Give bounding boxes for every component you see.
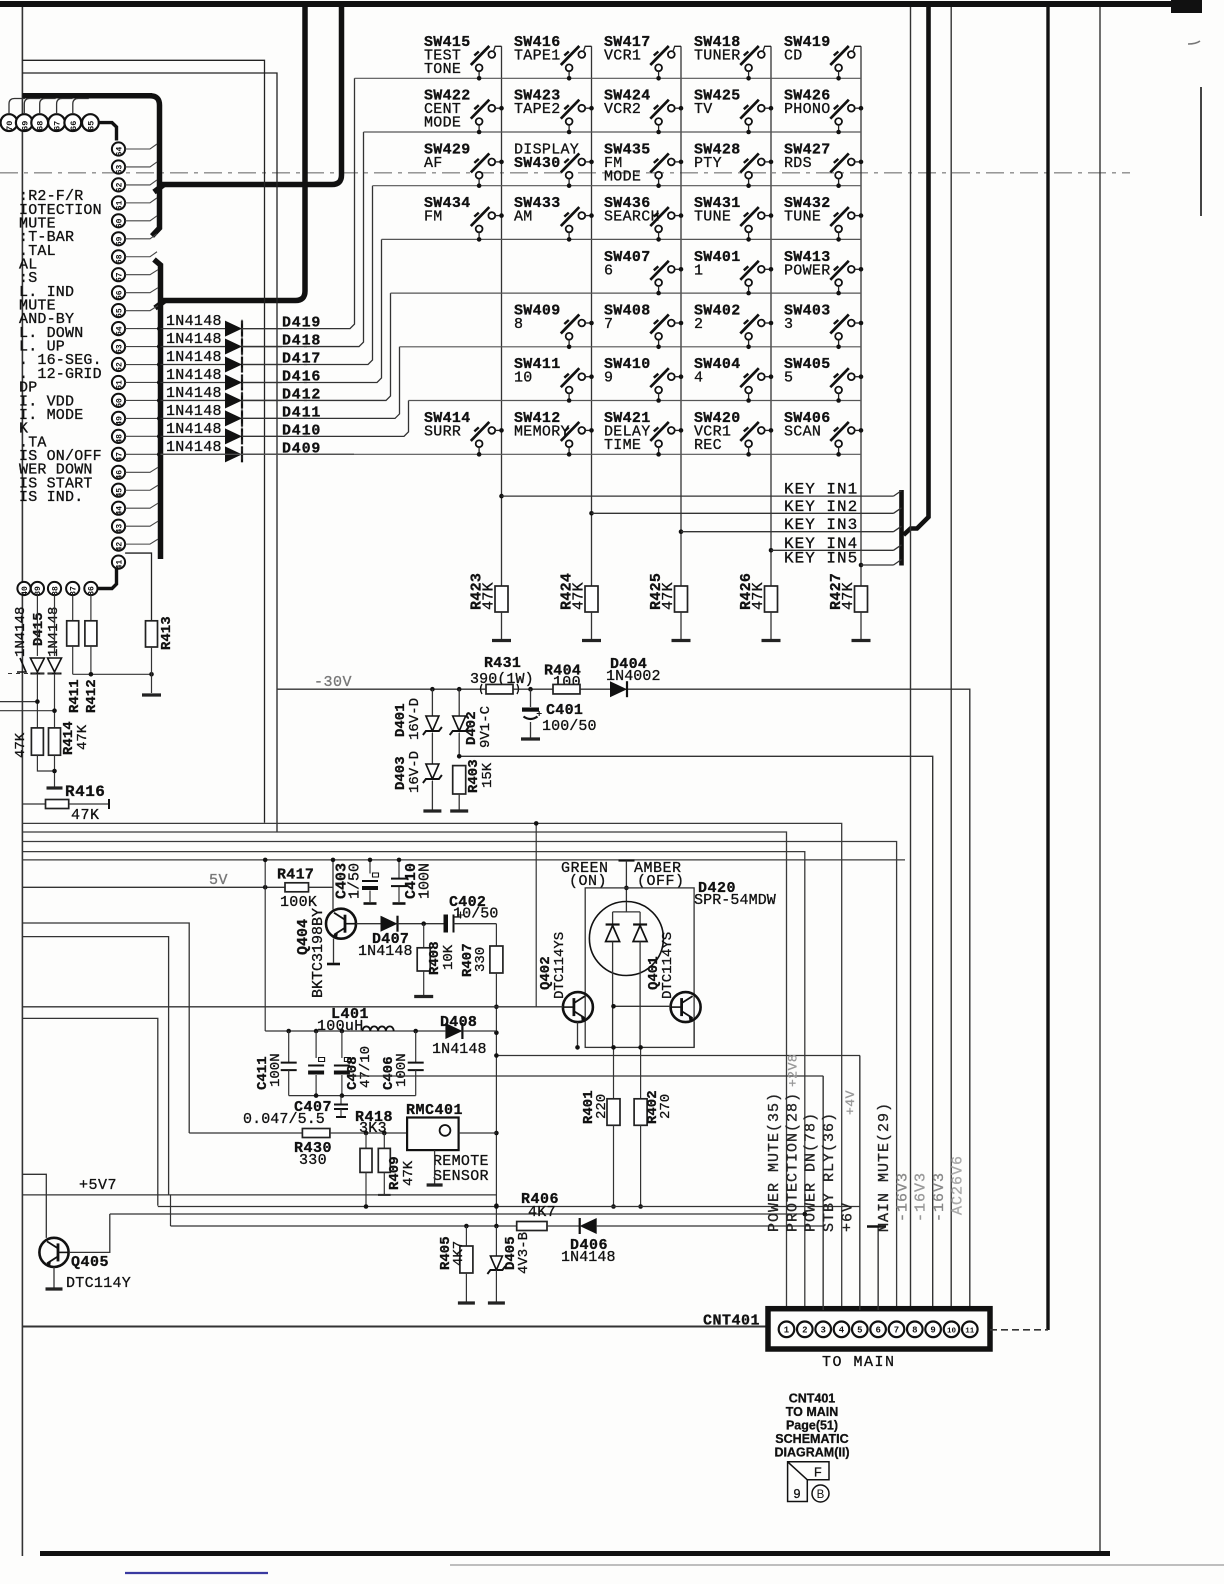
switch SW408 with label [604,303,683,350]
label connector pin 2 PROTECTION(28) [784,1092,801,1232]
resistor R424 47K with ground [559,573,602,641]
label 100N C411 [268,1053,284,1087]
switch SW429 with label [424,141,504,188]
svg-text:11: 11 [965,1328,975,1336]
wire D406 anode to pin3 line [597,1225,824,1227]
label DTC114YS Q402 [552,932,568,999]
transistor Q405 DTC114Y [39,1238,68,1267]
wire D409 row to matrix row 8 [242,453,354,455]
label KEY IN2 [784,498,858,516]
svg-text:1N4148: 1N4148 [166,349,222,366]
label R430 [294,1140,332,1157]
wire amber stem to R402 [638,1045,643,1099]
label TO MAIN [822,1354,896,1371]
wire Q404 collector to bus5 [331,858,336,910]
transistor Q401 DTC114YS [671,992,701,1022]
wire connector pin 3 vertical [822,1076,824,1310]
label D412 [282,386,321,403]
svg-text:TO MAIN: TO MAIN [786,1405,839,1419]
zener D401 16V-D [423,689,442,764]
label 100N C410 [417,863,434,899]
label C407 [294,1099,332,1116]
label D403 [393,756,409,790]
label D416 [282,368,321,385]
label CNT401 [703,1313,760,1330]
wire -30V rail crossing pin10 [0,0,1,1]
svg-text:39: 39 [34,586,43,596]
wire matrix row wire 4 [382,238,862,240]
switch SW410 with label [604,356,683,403]
label C406 [381,1056,397,1090]
label C403 [334,863,351,899]
svg-text:55: 55 [115,308,124,318]
svg-text:40: 40 [21,586,30,596]
IC bottom pin row (pins 36-40) [17,582,97,596]
wire long vertical x951 pin10 [950,7,952,1310]
svg-text:100N: 100N [268,1053,284,1087]
label R431 [484,655,521,672]
switch SW404 with label [694,356,773,403]
label SENSOR [433,1168,489,1185]
svg-text:65: 65 [86,121,96,131]
svg-text:TUNER: TUNER [694,48,741,65]
label C401 [546,702,583,719]
diode D411 1N4148 [161,410,283,426]
svg-text:SPR-54MDW: SPR-54MDW [694,892,776,909]
wire pin42 to R413 [125,553,151,620]
diode D407 1N4148 [381,916,398,932]
svg-text:9V1-C: 9V1-C [478,706,494,748]
diode D410 1N4148 [161,428,283,444]
remote sensor RMC401 [407,1118,459,1151]
svg-text:47K: 47K [750,582,767,610]
svg-text:CNT401: CNT401 [789,1392,836,1406]
wire +6V feed to pin5 [494,1053,860,1058]
svg-text:-16V3: -16V3 [931,1172,948,1222]
svg-text:VCR1: VCR1 [604,48,641,65]
svg-text:AC26V6: AC26V6 [949,1155,966,1215]
capacitor C403 1/50 [362,858,379,904]
svg-text:FM: FM [424,209,443,226]
caption Page(51) [786,1419,838,1433]
switch SW412 with label [514,410,594,457]
svg-text:CD: CD [784,48,803,65]
label Q401 [646,956,662,990]
blue margin line [125,1572,268,1574]
label SPR-54MDW [694,892,776,909]
svg-text:16V-D: 16V-D [407,751,423,793]
svg-text:47K: 47K [481,582,498,610]
label D410 [282,422,321,439]
capacitor C411 100N [281,1031,297,1096]
label 220 [594,1094,610,1119]
wire horizontal bus line 2 to connector [22,832,786,1310]
svg-text:47: 47 [115,452,124,462]
svg-text:R431: R431 [484,655,521,672]
label 100N C406 [394,1053,410,1087]
label 100 [553,674,581,691]
label D407 [372,931,409,948]
svg-text:6: 6 [875,1326,880,1336]
svg-text:TONE: TONE [424,61,461,78]
switch SW424 with label [604,88,683,135]
label 3K3 [359,1120,387,1137]
switch SW409 with label [514,303,594,350]
wire matrix column line 2 [589,46,594,585]
label 100K [280,894,317,911]
switch SW402 with label [694,303,773,350]
svg-text:9: 9 [930,1326,935,1336]
wire vertical 170.5 lower [170,1195,172,1226]
svg-text:10: 10 [947,1328,957,1336]
resistor R430 330 [302,1129,330,1138]
wire LED common anode with T end [619,861,635,902]
transistor Q402 DTC114YS [563,992,593,1022]
label D411 [282,404,321,421]
switch SW419 with label [784,34,861,81]
svg-text:CNT401: CNT401 [703,1313,760,1330]
svg-text:STBY RLY(36): STBY RLY(36) [821,1112,838,1232]
label D406 [570,1237,608,1254]
wire Q401 emitter [693,1022,695,1047]
label 10/50 [453,906,499,923]
svg-text:TAPE2: TAPE2 [514,101,561,118]
svg-text:270: 270 [658,1094,674,1119]
svg-text:61: 61 [115,200,124,210]
label 1N4148 left diode a [13,607,29,657]
zener D405 4V3-B [487,1226,505,1303]
svg-text:5: 5 [784,370,793,387]
label connector pin 1 POWER MUTE(35) [766,1092,783,1232]
label 1N4148 for D416 [166,367,222,384]
svg-text:R411: R411 [67,679,83,713]
wire R411 R412 R413 common node [73,672,154,677]
svg-text:49: 49 [115,416,124,426]
label R412 [84,679,100,713]
svg-text:8: 8 [514,316,523,333]
wire D416 riser to matrix row 4 [242,239,382,382]
svg-text:100N: 100N [394,1053,410,1087]
wire caps bottom rail [289,1093,416,1098]
wire thick bus A horizontal [22,93,152,99]
svg-text:37: 37 [70,586,79,596]
caption DIAGRAM(II) [775,1446,850,1460]
wire D419 riser to matrix row 1 [242,78,355,328]
svg-text:47/10: 47/10 [358,1046,374,1088]
svg-text:Q405: Q405 [71,1254,109,1271]
switch SW435 with label [604,141,683,188]
diode D417 1N4148 [161,357,283,373]
svg-text:1N4148: 1N4148 [166,367,222,384]
svg-text:36: 36 [88,586,97,596]
svg-text:REC: REC [694,437,722,454]
IC pin name labels [19,188,102,506]
svg-text:SCHEMATIC: SCHEMATIC [775,1432,848,1446]
svg-text:1: 1 [694,262,703,279]
label +4V STBY [843,1090,858,1115]
svg-text:5V: 5V [209,872,228,889]
label R414 [61,721,77,755]
svg-text:15K: 15K [480,762,496,788]
switch SW411 with label [514,356,594,403]
wire thick bus C horizontal to top [163,6,305,301]
switch SW434 with label [424,195,504,242]
wire bottom border bar [40,1551,1110,1556]
capacitor C405 electrolytic [308,1031,325,1096]
svg-text:C401: C401 [546,702,583,719]
wire long vertical x1048 thick AC [1046,7,1049,1330]
label connector pin 7 MAIN MUTE(29) [876,1102,893,1232]
capacitor C410 100N [391,858,407,904]
right edge tick mark [1188,41,1200,44]
wire RMC401 right pin [459,1132,497,1134]
diode D416 1N4148 [161,374,283,390]
switch SW414 with label [424,410,504,457]
wire D411 riser to matrix row 6 [242,347,400,419]
diode D418 1N4148 [161,339,283,355]
svg-text:69: 69 [20,121,30,131]
wire horizontal bus line 4 to connector [22,852,804,1310]
wire matrix row wire 8 [161,453,862,455]
wire matrix row wire 1 [355,77,862,79]
svg-text:47K: 47K [401,1160,417,1186]
caption TO MAIN [786,1405,839,1419]
svg-text:48: 48 [115,434,124,444]
wire key-in bundle bus [899,490,904,566]
LED green element [606,902,641,1048]
switch SW413 with label [784,249,863,296]
label 1/50 [347,863,364,899]
wire long vertical x910 pin8 [910,7,912,1310]
diode D412 1N4148 [161,392,283,408]
svg-text:47K: 47K [571,582,588,610]
resistor R416 47K [22,799,109,809]
diode D404 1N4002 [610,681,627,697]
wire D408 cathode to node [463,1030,497,1032]
label PROTECTION +2V8 [785,1054,800,1087]
wire matrix row wire 6 [400,346,862,348]
wire D412 riser to matrix row 5 [242,293,391,400]
svg-text:8: 8 [912,1326,917,1336]
label D415 [31,612,47,646]
capacitor C407 0.047/5.5 [334,1096,348,1117]
svg-text:330: 330 [299,1152,327,1169]
label connector pin 10 -16V3 [931,1172,948,1222]
switch SW417 with label [604,34,681,81]
svg-text:63: 63 [115,164,124,174]
svg-text:1N4148: 1N4148 [166,403,222,420]
label 16V-D D401 [407,698,423,740]
svg-text:SENSOR: SENSOR [433,1168,489,1185]
resistor R412 [85,595,97,674]
label D419 [282,315,321,332]
wire Q405 emitter to ground [46,1267,63,1289]
wire D418 riser to matrix row 2 [242,132,364,347]
svg-text:SW430: SW430 [514,155,561,172]
svg-text:1: 1 [784,1326,790,1336]
wire connector pin 5 vertical [859,1056,861,1311]
svg-text:D415: D415 [31,612,47,646]
svg-text:R416: R416 [65,783,105,801]
label 47K R416 [71,807,100,824]
IC pin wires to bus [125,144,161,544]
label Q402 [538,956,554,990]
svg-text:10K: 10K [441,944,457,970]
label 10K [441,944,457,970]
resistor R403 15K [450,766,468,811]
transistor Q404 BKTC3198BY [326,909,356,939]
switch SW406 with label [784,410,863,457]
wire matrix column line 3 [679,46,684,585]
svg-text:47K: 47K [71,807,100,824]
wire thick bus A corner-vertical [150,96,160,236]
capacitor C401 100/50 [521,689,542,739]
label C408 [345,1056,361,1090]
resistor R414 47K [49,728,61,755]
svg-text:47K: 47K [13,732,29,758]
svg-text:44: 44 [115,506,124,516]
wire Q405 base [69,1214,110,1252]
label R403 [466,759,482,793]
wire thick key bus vertical right [904,7,929,535]
connector CNT401 pins 1-11 [779,1322,978,1338]
label 1N4148 for D412 [166,385,222,402]
switch SW423 with label [514,88,594,135]
svg-text:BKTC3198BY: BKTC3198BY [310,908,327,998]
caption CNT401 [789,1392,836,1406]
svg-text:10: 10 [514,370,533,387]
svg-text:57: 57 [115,272,124,282]
wire from left rail to +5V7 node [22,937,168,1195]
svg-text:+4V: +4V [843,1090,858,1115]
wire thick pin36 to pin41 [98,569,117,589]
resistor R431 390 1W [481,684,519,694]
resistor R406 4K7 [517,1222,547,1231]
svg-text:R412: R412 [84,679,100,713]
svg-text:I. MODE: I. MODE [19,407,83,424]
label R417 [277,867,314,884]
svg-text:SCAN: SCAN [784,423,821,440]
label KEY IN4 [784,535,858,553]
svg-text:6: 6 [604,262,613,279]
switch SW421 with label [604,410,683,457]
label 47K for R415 [13,732,29,758]
label 1N4148 for D409 [166,439,222,456]
wire matrix row wire 7 [409,400,862,402]
wire R417 to Q404 collector line [309,886,334,888]
wire thick bus D bevel [154,185,164,193]
svg-text:TUNE: TUNE [784,209,821,226]
label C410 [403,863,420,899]
wire R430 to RMC401 [330,1131,407,1136]
svg-text:1N4148: 1N4148 [166,385,222,402]
label 47/10 [358,1046,374,1088]
diode D419 1N4148 [161,321,283,337]
label REMOTE [433,1153,489,1170]
resistor R407 330 [490,924,503,973]
label 1N4148 D406 [561,1249,616,1266]
resistor R425 47K with ground [648,573,691,641]
svg-text:54: 54 [115,326,124,336]
wire line A [158,1204,860,1209]
wire bottom faint line [450,1564,1224,1566]
svg-text:1N4148: 1N4148 [166,313,222,330]
IC top pin row (pins 65-69) [1,99,99,132]
label 100/50 [542,718,597,735]
wire Q404 emitter to ground [327,939,340,965]
label BKTC3198BY [310,908,327,998]
svg-text:POWER: POWER [784,262,831,279]
svg-text:7: 7 [894,1326,899,1336]
label R406 [521,1191,559,1208]
label D409 [282,440,321,457]
svg-text:220: 220 [594,1094,610,1119]
diode D415a [30,595,44,673]
wire long mid-left horizontal 1326 [22,1326,768,1328]
svg-text:MEMORY: MEMORY [514,423,570,440]
capacitor C406 100N [408,1031,424,1096]
label 1N4148 D408 [432,1041,487,1058]
svg-text:+5V7: +5V7 [79,1177,117,1194]
svg-text:62: 62 [115,182,124,192]
label R416 [65,783,105,801]
svg-text:MODE: MODE [604,168,641,185]
capacitor C402 10/50 [444,912,465,933]
svg-text:MODE: MODE [424,115,461,132]
svg-text:45: 45 [115,488,124,498]
svg-text:1N4148: 1N4148 [166,421,222,438]
svg-text:POWER DN(78): POWER DN(78) [803,1112,820,1232]
label R418 [355,1109,393,1126]
label D418 [282,333,321,350]
svg-text:50: 50 [115,398,124,408]
zener D403 16V-D [423,764,442,811]
switch SW422 with label [424,88,504,135]
svg-text:-30V: -30V [314,674,352,691]
label 15K [480,762,496,788]
label Q405 [71,1254,109,1271]
label L401 [331,1006,369,1023]
svg-text:1N4002: 1N4002 [606,668,661,685]
label C402 [449,894,486,911]
svg-text:KEY IN5: KEY IN5 [784,550,858,568]
svg-text:9: 9 [604,370,613,387]
LED D420 outline box [585,888,694,1048]
switch SW403 with label [784,303,863,350]
label connector pin 9 -16V3 [913,1172,930,1222]
label KEY IN1 [784,481,858,499]
diode D406 1N4148 [580,1218,597,1234]
wire thick bus C bevel [155,301,165,309]
label 16V-D D403 [407,751,423,793]
label 1N4148 D407 [358,943,413,960]
svg-text:3: 3 [784,316,793,333]
wire D410 riser to matrix row 7 [242,401,409,437]
svg-text:AF: AF [424,155,443,172]
wire horizontal bus line 1 to connector [22,823,841,1310]
wire horizontal bus line 5 [22,859,905,861]
label 330 R407 [473,947,489,972]
svg-text:46: 46 [115,470,124,480]
switch SW436 with label [604,195,683,242]
wire from left rail to line A [22,1018,157,1205]
wire bus1 branch to Q402 base [534,821,539,1007]
wire matrix row wire 5 [391,292,862,294]
resistor R409 47K [378,1133,391,1195]
label 9V1-C D402 [478,706,494,748]
wire KEY IN2 line [592,508,902,514]
svg-text:-16V3: -16V3 [913,1172,930,1222]
